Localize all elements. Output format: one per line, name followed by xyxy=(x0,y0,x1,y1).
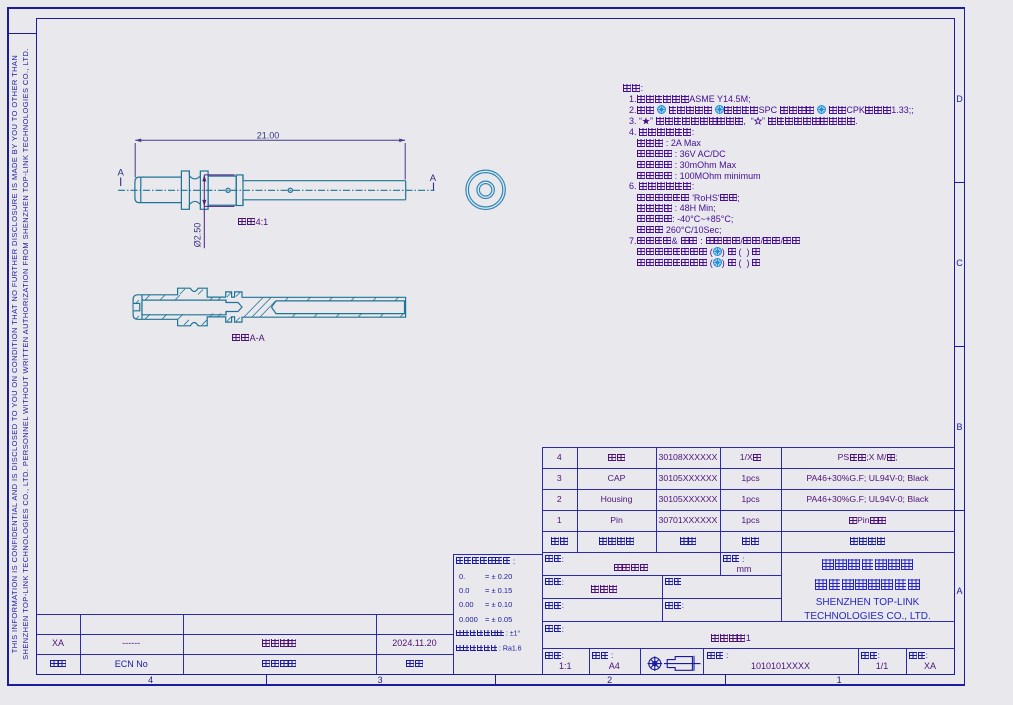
section cap slot xyxy=(134,303,140,310)
zone letters D C B A (right margin) xyxy=(954,94,965,104)
dimension 21.00 xyxy=(135,139,405,180)
svg-text:Ø2.50: Ø2.50 xyxy=(193,223,203,248)
third angle projection symbol xyxy=(640,648,703,674)
side view pin body cylinder xyxy=(141,177,182,203)
side view flange 1 xyxy=(181,171,189,209)
BOM header row xyxy=(542,536,578,546)
revision table content xyxy=(36,638,80,648)
side view neck (spool groove) xyxy=(189,171,200,209)
side view node circle 2 xyxy=(288,188,292,192)
section hatching xyxy=(136,289,403,325)
BOM table grid xyxy=(542,447,543,552)
side view node circle 1 xyxy=(226,188,230,192)
end view concentric circles xyxy=(466,170,505,209)
zone numbers 4 3 2 1 (bottom margin) xyxy=(141,675,161,685)
side view flange 2 xyxy=(200,171,208,209)
company name block xyxy=(781,557,954,572)
svg-text:A: A xyxy=(118,168,125,179)
svg-text:A: A xyxy=(430,173,437,184)
notes block xyxy=(623,83,643,93)
zone ticks (bottom margin) xyxy=(266,674,267,685)
section cap (rounded left end) xyxy=(133,295,142,320)
side view barrel xyxy=(243,175,406,206)
title block values xyxy=(542,563,721,573)
confidentiality strip top line xyxy=(7,33,36,34)
tolerance box frame xyxy=(453,554,543,555)
tolerance box content xyxy=(456,557,515,566)
section marker A (left) xyxy=(118,168,437,185)
revision table grid xyxy=(37,614,454,615)
confidentiality notice (rotated) line 1 xyxy=(10,34,19,674)
outer border frame xyxy=(7,7,965,9)
section outer profile xyxy=(142,288,406,326)
dimension diameter 2.50 leader lines xyxy=(202,175,234,248)
title block grid xyxy=(542,575,782,576)
title block labels xyxy=(545,554,564,564)
confidentiality notice (rotated) line 2 xyxy=(21,34,30,674)
inner border frame xyxy=(36,18,955,19)
section main bore (white) xyxy=(142,300,242,315)
section view A-A xyxy=(133,288,406,326)
zone ticks (right margin) xyxy=(954,182,965,183)
label scale 4:1 xyxy=(238,217,268,227)
section barrel bore (white) xyxy=(272,301,405,314)
section marker ticks xyxy=(121,178,434,191)
svg-text:21.00: 21.00 xyxy=(257,131,280,141)
side view crimp box xyxy=(208,176,236,205)
side view centerline xyxy=(118,189,434,191)
label section A-A xyxy=(232,333,265,343)
side view flange 3 xyxy=(236,175,243,206)
side view pin head cap xyxy=(135,177,141,203)
BOM rows content xyxy=(542,452,578,462)
